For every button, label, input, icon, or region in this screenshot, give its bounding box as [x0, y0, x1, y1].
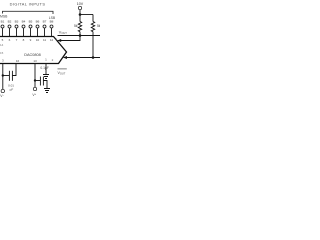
svg-text:MSB: MSB [0, 15, 8, 19]
svg-text:1: 1 [45, 58, 47, 62]
input terminal B7 [43, 25, 46, 28]
wire B8 to pin 12 [51, 28, 53, 36]
supply terminal circle [78, 6, 81, 9]
ground 1 (pin 1 VLC) [43, 75, 49, 79]
junction node at tee [79, 13, 82, 16]
wire tee to R1 top [79, 15, 81, 22]
input terminal B8 [50, 25, 53, 28]
wire supply to tee [79, 10, 81, 15]
capacitor C2 0.1uF plates [39, 77, 41, 86]
svg-text:12: 12 [50, 38, 54, 42]
svg-text:B8: B8 [50, 19, 54, 23]
resistor R2 5k [91, 22, 94, 32]
input terminal B1 [1, 25, 4, 28]
wire pin 3 down to V- terminal [2, 64, 4, 90]
svg-text:8: 8 [23, 38, 25, 42]
V- terminal circle [1, 89, 4, 92]
capacitor C1 0.01uF plates [8, 71, 10, 81]
svg-text:13: 13 [33, 59, 37, 63]
wire pin 13 down to V+ terminal [34, 64, 36, 88]
wire B3 to pin 7 [16, 28, 18, 36]
wire pin 1 down to ground 1 [45, 64, 47, 75]
svg-text:2: 2 [52, 58, 54, 62]
wire C2 right plate to ground 2 [43, 81, 47, 89]
svg-text:µF: µF [10, 88, 14, 92]
svg-text:V−: V− [0, 94, 4, 98]
svg-text:VOUT: VOUT [59, 31, 67, 36]
svg-text:B7: B7 [43, 19, 47, 23]
wire B4 to pin 8 [23, 28, 25, 36]
junction node pin3/cap C1 [2, 74, 4, 76]
input terminal B4 [22, 25, 25, 28]
svg-text:VOUT: VOUT [58, 71, 66, 76]
wire node to C2 left plate [35, 80, 40, 82]
svg-text:3: 3 [2, 59, 4, 63]
wire node to C1 left plate [3, 75, 10, 77]
V+ terminal circle [33, 87, 36, 90]
svg-text:B3: B3 [15, 19, 19, 23]
svg-text:0.1µF: 0.1µF [40, 66, 49, 70]
DAC0808 body outline (pentagon, cropped at left) [0, 37, 67, 64]
wire B6 to pin 10 [37, 28, 39, 36]
svg-text:11: 11 [43, 38, 46, 42]
svg-text:10: 10 [36, 38, 40, 42]
svg-text:DIGITAL INPUTS: DIGITAL INPUTS [10, 3, 46, 7]
svg-text:6: 6 [9, 38, 11, 42]
svg-text:9: 9 [30, 38, 32, 42]
input group brace [3, 11, 54, 14]
wire B2 to pin 6 [9, 28, 11, 36]
svg-text:15: 15 [0, 51, 4, 55]
input terminal B3 [15, 25, 18, 28]
svg-text:B2: B2 [8, 19, 12, 23]
wire from node down to IOUT arrow [58, 36, 80, 41]
junction node at R2 / IOUT-bar wire [92, 56, 95, 59]
IOUT-bar output wire [64, 57, 100, 59]
svg-text:5k: 5k [97, 24, 100, 28]
wire B5 to pin 9 [30, 28, 32, 36]
svg-text:DAC0808: DAC0808 [24, 53, 40, 57]
junction node at VOUT rail / R1 [79, 34, 82, 37]
wire tee to R2 top [92, 15, 94, 22]
IOUT-bar current arrowhead into pin 2 edge [63, 56, 67, 59]
input terminal B6 [36, 25, 39, 28]
wire B7 to pin 11 [44, 28, 46, 36]
wire B1 to pin 5 [2, 28, 4, 36]
svg-text:B6: B6 [36, 19, 40, 23]
svg-text:16: 16 [16, 59, 20, 63]
svg-text:10V: 10V [77, 2, 84, 6]
VOUT rail wire [58, 35, 101, 37]
junction node pin13/cap C2 [34, 79, 36, 81]
svg-text:B4: B4 [22, 19, 26, 23]
wire C1 right plate to pin 16 [12, 64, 16, 76]
svg-text:V+: V+ [32, 93, 36, 97]
IOUT current arrowhead into pin 4 edge [57, 39, 61, 42]
svg-text:14: 14 [0, 43, 4, 47]
input terminal B2 [8, 25, 11, 28]
wire R1 bottom to VOUT rail [79, 32, 81, 36]
ground 2 (below C2) [44, 89, 50, 93]
label VOUT-bar (overlined) [58, 68, 67, 70]
input terminal B5 [29, 25, 32, 28]
svg-text:5: 5 [2, 38, 4, 42]
svg-text:5k: 5k [74, 24, 78, 28]
wire R2 bottom to IOUT-bar wire [92, 32, 94, 58]
svg-text:B1: B1 [1, 19, 5, 23]
svg-text:7: 7 [16, 38, 18, 42]
resistor R1 5k [78, 22, 81, 32]
svg-text:B5: B5 [29, 19, 33, 23]
wire tee across to R2 [80, 14, 93, 16]
